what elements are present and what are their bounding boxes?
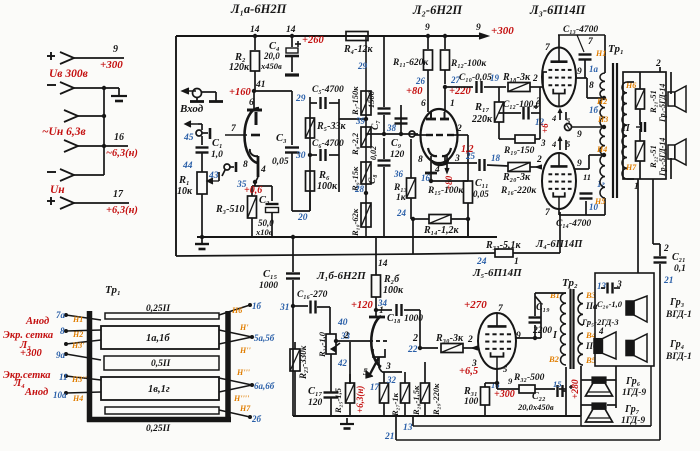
svg-text:C₇: C₇ bbox=[371, 120, 381, 130]
svg-text:26: 26 bbox=[415, 76, 426, 86]
svg-text:0,05: 0,05 bbox=[272, 157, 289, 167]
svg-text:Н3: Н3 bbox=[597, 115, 608, 124]
svg-text:Гр₇: Гр₇ bbox=[624, 404, 640, 415]
svg-text:R₃₁: R₃₁ bbox=[463, 386, 478, 397]
svg-text:2б: 2б bbox=[251, 414, 262, 424]
svg-text:Тр₁: Тр₁ bbox=[105, 284, 121, 296]
svg-text:Экр.сетка: Экр.сетка bbox=[3, 370, 51, 381]
svg-text:R₁₈-3к: R₁₈-3к bbox=[502, 72, 531, 83]
svg-text:29: 29 bbox=[357, 61, 368, 71]
svg-text:~Uн 6,3в: ~Uн 6,3в bbox=[42, 126, 86, 138]
svg-text:Н'''': Н'''' bbox=[233, 394, 250, 403]
svg-text:30: 30 bbox=[295, 151, 306, 161]
svg-text:Н7: Н7 bbox=[239, 404, 251, 413]
svg-text:1: 1 bbox=[379, 306, 384, 316]
svg-text:1к: 1к bbox=[396, 193, 407, 203]
svg-text:R₁₇: R₁₇ bbox=[474, 102, 490, 113]
svg-text:+280: +280 bbox=[571, 379, 581, 399]
svg-text:C₁₅: C₁₅ bbox=[263, 269, 278, 280]
svg-text:R₃₀-3к: R₃₀-3к bbox=[435, 333, 464, 344]
svg-text:C₁: C₁ bbox=[212, 138, 223, 149]
svg-text:2: 2 bbox=[456, 124, 462, 134]
svg-text:7а: 7а bbox=[56, 310, 66, 320]
svg-text:45: 45 bbox=[183, 133, 194, 143]
svg-text:20,0: 20,0 bbox=[263, 51, 280, 61]
svg-text:Н4: Н4 bbox=[72, 394, 83, 403]
svg-text:C₂: C₂ bbox=[259, 195, 270, 206]
svg-text:0,02: 0,02 bbox=[369, 146, 378, 160]
svg-text:C₁₃-4700: C₁₃-4700 bbox=[563, 25, 598, 35]
svg-text:120: 120 bbox=[308, 398, 323, 408]
svg-text:R₃₂-500: R₃₂-500 bbox=[513, 373, 545, 383]
svg-text:4: 4 bbox=[260, 165, 266, 175]
svg-text:х10в: х10в bbox=[255, 227, 273, 237]
svg-text:20,0х450в: 20,0х450в bbox=[517, 402, 554, 412]
svg-text:R₄-12к: R₄-12к bbox=[343, 44, 373, 55]
svg-text:Л₁б-6Н2П: Л₁б-6Н2П bbox=[316, 270, 366, 282]
svg-text:Н': Н' bbox=[239, 323, 249, 332]
svg-text:R₈-2,2: R₈-2,2 bbox=[350, 132, 360, 156]
svg-text:10а: 10а bbox=[53, 390, 67, 400]
svg-text:+300: +300 bbox=[491, 25, 514, 37]
svg-text:14: 14 bbox=[378, 259, 388, 269]
svg-text:Анод: Анод bbox=[24, 387, 48, 398]
svg-text:ВГД-1: ВГД-1 bbox=[665, 352, 692, 362]
svg-text:1000: 1000 bbox=[259, 281, 278, 291]
svg-text:Н1: Н1 bbox=[72, 315, 83, 324]
svg-text:R₁₀-62к: R₁₀-62к bbox=[350, 208, 360, 237]
svg-text:R₁₉-150: R₁₉-150 bbox=[503, 146, 535, 156]
svg-text:C₅-4700: C₅-4700 bbox=[312, 85, 344, 95]
svg-text:0,5II: 0,5II bbox=[151, 359, 171, 369]
svg-text:6: 6 bbox=[421, 99, 426, 109]
svg-text:44: 44 bbox=[182, 161, 193, 171]
svg-text:2: 2 bbox=[536, 155, 542, 165]
svg-text:R₂₁-51: R₂₁-51 bbox=[648, 90, 658, 114]
svg-text:16: 16 bbox=[421, 173, 431, 183]
svg-text:C₂₁: C₂₁ bbox=[672, 252, 686, 263]
svg-text:R₂₇-1к: R₂₇-1к bbox=[390, 392, 400, 417]
svg-text:Н7: Н7 bbox=[625, 163, 637, 172]
svg-text:1б: 1б bbox=[252, 301, 262, 311]
svg-text:R₁₂-100к: R₁₂-100к bbox=[450, 59, 487, 69]
svg-text:39: 39 bbox=[355, 116, 366, 126]
svg-text:Л₅-6П14П: Л₅-6П14П bbox=[472, 267, 522, 279]
svg-text:R₁₄-1,2к: R₁₄-1,2к bbox=[423, 225, 459, 236]
svg-text:14: 14 bbox=[250, 25, 260, 35]
svg-text:R₆: R₆ bbox=[318, 170, 330, 181]
svg-text:19: 19 bbox=[490, 73, 500, 83]
svg-text:1: 1 bbox=[450, 99, 455, 109]
svg-text:C₉: C₉ bbox=[391, 138, 402, 149]
svg-text:+6,3(н): +6,3(н) bbox=[106, 205, 138, 216]
svg-text:0,25II: 0,25II bbox=[146, 424, 170, 434]
svg-text:120к: 120к bbox=[229, 62, 250, 73]
svg-text:C₁₆-270: C₁₆-270 bbox=[297, 290, 328, 300]
svg-text:В2: В2 bbox=[548, 354, 560, 364]
svg-text:R₁₆-220к: R₁₆-220к bbox=[500, 186, 537, 196]
svg-text:6: 6 bbox=[249, 98, 254, 108]
svg-text:42: 42 bbox=[337, 358, 348, 368]
svg-text:Гр₄: Гр₄ bbox=[669, 339, 684, 350]
svg-text:R₁₁-620к: R₁₁-620к bbox=[392, 58, 429, 68]
svg-text:Гр₆: Гр₆ bbox=[625, 376, 641, 387]
svg-text:Л₃-6П14П: Л₃-6П14П bbox=[529, 3, 587, 17]
svg-text:+6,5: +6,5 bbox=[459, 366, 478, 377]
svg-text:1: 1 bbox=[514, 257, 519, 267]
svg-text:4: 4 bbox=[551, 113, 556, 123]
svg-text:9: 9 bbox=[577, 67, 582, 77]
svg-text:Гр₁-5ГД-14: Гр₁-5ГД-14 bbox=[658, 84, 667, 123]
svg-text:36: 36 bbox=[393, 169, 404, 179]
svg-text:220к: 220к bbox=[471, 114, 493, 125]
svg-text:24: 24 bbox=[476, 257, 487, 267]
svg-text:R₂₀-3к: R₂₀-3к bbox=[502, 172, 531, 183]
svg-text:11: 11 bbox=[583, 172, 591, 182]
svg-text:13: 13 bbox=[597, 281, 607, 291]
svg-text:2: 2 bbox=[412, 333, 418, 344]
svg-text:Н'': Н'' bbox=[239, 346, 251, 355]
svg-text:5а,5б: 5а,5б bbox=[254, 333, 275, 343]
svg-text:31: 31 bbox=[279, 303, 290, 313]
svg-text:+120: +120 bbox=[351, 300, 373, 311]
svg-text:14: 14 bbox=[286, 25, 296, 35]
svg-text:17: 17 bbox=[370, 382, 380, 392]
svg-text:+270: +270 bbox=[464, 299, 487, 311]
svg-text:+300: +300 bbox=[20, 348, 42, 359]
svg-text:15: 15 bbox=[553, 379, 562, 389]
svg-text:9: 9 bbox=[516, 331, 521, 341]
svg-text:R₂₈-1,5к: R₂₈-1,5к bbox=[411, 385, 421, 416]
svg-text:R₁₅-100к: R₁₅-100к bbox=[427, 186, 464, 196]
svg-text:6а,6б: 6а,6б bbox=[254, 381, 275, 391]
svg-text:В1: В1 bbox=[549, 290, 560, 300]
svg-text:Н6: Н6 bbox=[231, 306, 242, 315]
svg-text:32: 32 bbox=[386, 375, 397, 385]
svg-text:Л₂-6Н2П: Л₂-6Н2П bbox=[412, 3, 463, 17]
svg-text:1в,1г: 1в,1г bbox=[148, 384, 170, 395]
svg-text:4: 4 bbox=[598, 326, 604, 336]
svg-text:Л₄-6П14П: Л₄-6П14П bbox=[535, 239, 583, 250]
svg-text:R₂₂-51: R₂₂-51 bbox=[648, 145, 658, 169]
svg-text:R₂б: R₂б bbox=[383, 274, 400, 285]
svg-text:1ГД-9: 1ГД-9 bbox=[621, 416, 645, 426]
svg-text:8: 8 bbox=[243, 160, 248, 170]
svg-text:Н''': Н''' bbox=[236, 368, 251, 377]
svg-text:21: 21 bbox=[384, 432, 395, 442]
svg-text:Н2: Н2 bbox=[596, 97, 607, 106]
svg-text:2: 2 bbox=[343, 331, 349, 341]
svg-text:C₁₉: C₁₉ bbox=[536, 302, 550, 313]
svg-text:C₁₄-4700: C₁₄-4700 bbox=[556, 219, 591, 229]
svg-text:Н3': Н3' bbox=[71, 341, 85, 350]
svg-text:R₂₄-1,0: R₂₄-1,0 bbox=[317, 331, 327, 358]
svg-text:х450в: х450в bbox=[260, 61, 282, 71]
svg-text:0,05: 0,05 bbox=[473, 189, 489, 199]
svg-text:3: 3 bbox=[616, 280, 622, 290]
svg-text:~6,3(н): ~6,3(н) bbox=[106, 148, 138, 159]
svg-text:+6: +6 bbox=[540, 123, 550, 133]
svg-text:10к: 10к bbox=[177, 186, 193, 197]
svg-text:1б: 1б bbox=[589, 105, 599, 115]
svg-text:Вход: Вход bbox=[179, 103, 204, 115]
svg-text:17: 17 bbox=[113, 189, 124, 200]
svg-text:2200: 2200 bbox=[532, 326, 552, 336]
svg-text:+80: +80 bbox=[406, 86, 423, 97]
svg-text:Тр₂: Тр₂ bbox=[562, 277, 578, 289]
svg-text:R₅-33к: R₅-33к bbox=[316, 121, 346, 132]
svg-text:C₁₈: C₁₈ bbox=[387, 313, 401, 324]
svg-text:Тр₁: Тр₁ bbox=[608, 43, 624, 55]
svg-text:20: 20 bbox=[297, 213, 308, 223]
svg-text:R₁: R₁ bbox=[178, 175, 190, 186]
svg-text:1а,1б: 1а,1б bbox=[146, 333, 170, 344]
svg-text:C₁₀-0,05: C₁₀-0,05 bbox=[459, 73, 492, 83]
svg-text:1,0: 1,0 bbox=[211, 150, 223, 160]
svg-text:1а: 1а bbox=[589, 64, 599, 74]
svg-text:120: 120 bbox=[390, 150, 405, 160]
svg-text:+160: +160 bbox=[229, 87, 251, 98]
svg-text:28: 28 bbox=[354, 184, 365, 194]
svg-text:22: 22 bbox=[407, 345, 418, 355]
svg-text:C₂₀-1,0: C₂₀-1,0 bbox=[597, 299, 623, 309]
svg-text:Л₁а-6Н2П: Л₁а-6Н2П bbox=[230, 2, 288, 16]
svg-text:R₃₃-5,1к: R₃₃-5,1к bbox=[485, 240, 521, 251]
svg-text:R₃-510: R₃-510 bbox=[215, 204, 245, 215]
svg-text:Л₄: Л₄ bbox=[13, 378, 25, 389]
svg-text:+300: +300 bbox=[100, 59, 123, 71]
svg-text:2: 2 bbox=[663, 244, 669, 254]
svg-text:C₁₇: C₁₇ bbox=[308, 386, 323, 397]
svg-text:9: 9 bbox=[476, 23, 481, 33]
svg-text:21: 21 bbox=[663, 276, 674, 286]
svg-text:C₃: C₃ bbox=[276, 133, 287, 144]
svg-text:9: 9 bbox=[425, 23, 430, 33]
svg-text:9а: 9а bbox=[56, 350, 66, 360]
svg-text:11: 11 bbox=[59, 372, 68, 382]
svg-text:40: 40 bbox=[337, 318, 348, 328]
svg-text:24: 24 bbox=[396, 208, 407, 218]
svg-text:100к: 100к bbox=[317, 181, 338, 192]
svg-text:R₇-150к: R₇-150к bbox=[350, 86, 360, 116]
svg-text:13: 13 bbox=[403, 423, 413, 433]
svg-text:0,25II: 0,25II bbox=[146, 304, 170, 314]
svg-text:R₁₃: R₁₃ bbox=[393, 183, 407, 193]
svg-text:18: 18 bbox=[491, 153, 501, 163]
svg-text:41: 41 bbox=[255, 80, 266, 90]
svg-text:9: 9 bbox=[577, 130, 582, 140]
svg-text:R₂₉-220к: R₂₉-220к bbox=[431, 383, 441, 416]
svg-text:4: 4 bbox=[551, 139, 556, 149]
svg-text:100к: 100к bbox=[383, 285, 404, 296]
svg-text:+6,3(н): +6,3(н) bbox=[355, 386, 365, 413]
svg-text:R₂₃-330к: R₂₃-330к bbox=[298, 345, 308, 380]
svg-text:Гр₂-5ГД-14: Гр₂-5ГД-14 bbox=[658, 138, 667, 177]
svg-text:100: 100 bbox=[464, 397, 479, 407]
svg-text:Uн: Uн bbox=[50, 184, 65, 196]
svg-text:3: 3 bbox=[385, 362, 391, 372]
svg-text:9: 9 bbox=[113, 44, 118, 55]
svg-text:Н2: Н2 bbox=[72, 330, 83, 339]
svg-text:16: 16 bbox=[114, 132, 124, 143]
svg-text:Н1: Н1 bbox=[595, 49, 606, 58]
svg-text:R₂₅-1,5: R₂₅-1,5 bbox=[333, 387, 343, 414]
svg-text:2: 2 bbox=[532, 74, 538, 84]
svg-text:Н4: Н4 bbox=[596, 145, 607, 154]
svg-text:Анод: Анод bbox=[25, 316, 49, 327]
svg-text:0,1: 0,1 bbox=[674, 264, 686, 274]
svg-text:3: 3 bbox=[540, 138, 546, 148]
svg-text:+300: +300 bbox=[494, 389, 515, 400]
svg-text:C₂₂: C₂₂ bbox=[532, 391, 546, 402]
svg-text:2: 2 bbox=[467, 335, 473, 345]
svg-text:9: 9 bbox=[577, 159, 582, 169]
svg-text:1500: 1500 bbox=[366, 90, 376, 108]
svg-text:25: 25 bbox=[465, 151, 476, 161]
svg-text:+260: +260 bbox=[302, 35, 324, 46]
svg-text:Н3'': Н3'' bbox=[71, 375, 87, 384]
svg-text:Н5: Н5 bbox=[594, 197, 605, 206]
svg-text:ВГД-1: ВГД-1 bbox=[665, 310, 692, 320]
svg-text:Uв 300в: Uв 300в bbox=[49, 68, 88, 80]
svg-text:8: 8 bbox=[418, 155, 423, 165]
svg-text:4: 4 bbox=[434, 165, 440, 175]
svg-text:1ГД-9: 1ГД-9 bbox=[622, 388, 646, 398]
svg-text:8: 8 bbox=[60, 326, 65, 336]
svg-text:C₈: C₈ bbox=[368, 174, 378, 184]
svg-text:29: 29 bbox=[295, 94, 306, 104]
svg-text:8: 8 bbox=[589, 81, 594, 91]
svg-text:C₁₁: C₁₁ bbox=[475, 178, 489, 189]
svg-text:Гр₃: Гр₃ bbox=[669, 297, 684, 308]
